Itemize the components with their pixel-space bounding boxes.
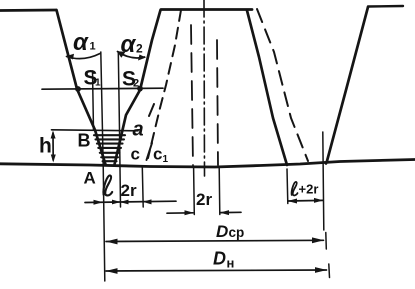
svg-text:2: 2 — [133, 78, 139, 90]
svg-text:н: н — [227, 256, 235, 271]
left vertical extension line (l-left / Dcp left) — [101, 52, 105, 281]
junction dot on S line at right flank — [137, 86, 143, 92]
label l (script ell) — [103, 176, 112, 196]
l+2r dimension line with outward arrows — [288, 199, 323, 202]
groove 1 left flank — [57, 10, 106, 165]
svg-text:1: 1 — [163, 154, 169, 165]
Dn dimension line — [106, 270, 327, 271]
center 2r dimension arrows — [167, 212, 193, 214]
prime mark of a — [149, 104, 154, 116]
svg-text:D: D — [216, 222, 228, 241]
dashed worn-profile flank in groove 1 — [148, 10, 181, 158]
Dn right tick — [328, 264, 331, 278]
h dimension vertical with arrows — [52, 133, 54, 160]
alpha2 arc with arrowhead — [118, 52, 145, 58]
svg-text:h: h — [39, 135, 52, 158]
label l+2r — [292, 182, 298, 196]
arrow tip right at l-left — [94, 200, 104, 205]
l and 2r dimension line — [85, 201, 176, 202]
vertical extension line l-right — [118, 52, 120, 207]
arrow tip left at 2r-right — [143, 199, 152, 204]
h reference line — [52, 130, 139, 131]
dashed tick near c1 — [147, 143, 153, 160]
center axis dash-dot line — [203, 0, 206, 176]
hatch lines in groove 1 root — [94, 134, 125, 136]
svg-text:D: D — [213, 249, 226, 269]
right tooth left flank — [326, 7, 368, 164]
root surface line — [0, 160, 415, 168]
svg-text:c: c — [153, 145, 162, 164]
vertical extension line 2r-right — [141, 167, 144, 207]
svg-text:1: 1 — [95, 78, 101, 89]
svg-text:B: B — [78, 131, 91, 151]
alpha1 arc — [67, 54, 101, 59]
l+2r extension verticals — [286, 169, 289, 204]
svg-text:2r: 2r — [196, 190, 212, 209]
center 2r extension verticals — [193, 168, 196, 215]
svg-text:+2r: +2r — [299, 182, 319, 197]
double arrows at shared extension — [120, 200, 129, 205]
Dcp right tick — [325, 233, 328, 250]
dashed vertical line left of axis — [191, 25, 193, 165]
central tooth top line — [161, 8, 252, 11]
central tooth right flank — [247, 11, 287, 166]
svg-text:α: α — [121, 31, 137, 58]
top surface line left segment — [0, 9, 56, 12]
dashed vertical line right of axis — [217, 40, 218, 165]
extension line right of S1 — [93, 71, 94, 130]
svg-text:1: 1 — [90, 41, 96, 53]
svg-text:2: 2 — [136, 42, 143, 56]
svg-text:a: a — [133, 119, 144, 141]
S measurement line — [42, 88, 163, 89]
junction dot on S line at left flank — [75, 86, 81, 92]
groove 1 right flank — [115, 10, 161, 165]
right tooth top line — [368, 5, 403, 8]
dashed worn-profile flank right of central tooth — [257, 9, 308, 161]
Dcp dimension line — [106, 240, 324, 241]
svg-text:cp: cp — [229, 225, 245, 240]
svg-text:α: α — [73, 29, 89, 56]
svg-text:2r: 2r — [121, 181, 137, 200]
svg-text:c: c — [131, 145, 140, 164]
svg-text:A: A — [84, 169, 96, 188]
